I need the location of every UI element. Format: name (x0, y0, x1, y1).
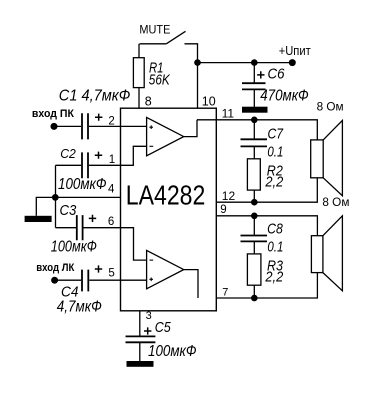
svg-text:C5: C5 (155, 320, 172, 336)
svg-text:MUTE: MUTE (139, 25, 170, 37)
svg-text:7: 7 (222, 286, 228, 298)
svg-text:8 Ом: 8 Ом (322, 195, 349, 209)
svg-text:вход ПК: вход ПК (32, 108, 74, 120)
svg-text:C3: C3 (60, 203, 77, 219)
svg-text:0.1: 0.1 (267, 145, 283, 161)
svg-text:2,2: 2,2 (265, 269, 284, 285)
svg-text:100мкФ: 100мкФ (51, 239, 97, 256)
svg-text:LA4282: LA4282 (126, 179, 206, 210)
svg-text:6: 6 (108, 216, 114, 228)
svg-text:8: 8 (145, 95, 152, 109)
svg-text:C8: C8 (267, 222, 283, 238)
svg-text:2: 2 (108, 115, 114, 127)
svg-text:C2: C2 (60, 146, 76, 161)
svg-text:100мкФ: 100мкФ (148, 343, 197, 360)
svg-text:9: 9 (220, 204, 226, 216)
svg-text:вход ЛК: вход ЛК (36, 262, 74, 274)
svg-text:+Uпит: +Uпит (279, 44, 311, 58)
svg-text:4: 4 (108, 184, 115, 196)
svg-text:3: 3 (146, 310, 152, 322)
svg-text:C7: C7 (268, 127, 284, 143)
svg-text:1: 1 (109, 154, 115, 166)
svg-text:0.1: 0.1 (267, 240, 283, 256)
svg-text:12: 12 (222, 189, 236, 203)
svg-text:C1 4,7мкФ: C1 4,7мкФ (59, 87, 131, 104)
svg-text:4,7мкФ: 4,7мкФ (57, 298, 102, 315)
svg-text:2,2: 2,2 (265, 174, 284, 190)
svg-text:56K: 56K (149, 72, 171, 88)
svg-text:8 Ом: 8 Ом (317, 100, 344, 114)
svg-text:10: 10 (202, 95, 216, 109)
svg-text:470мкФ: 470мкФ (260, 87, 309, 104)
svg-text:5: 5 (108, 268, 114, 280)
svg-text:C6: C6 (268, 66, 286, 82)
svg-text:100мкФ: 100мкФ (58, 176, 107, 193)
svg-text:11: 11 (222, 107, 235, 121)
